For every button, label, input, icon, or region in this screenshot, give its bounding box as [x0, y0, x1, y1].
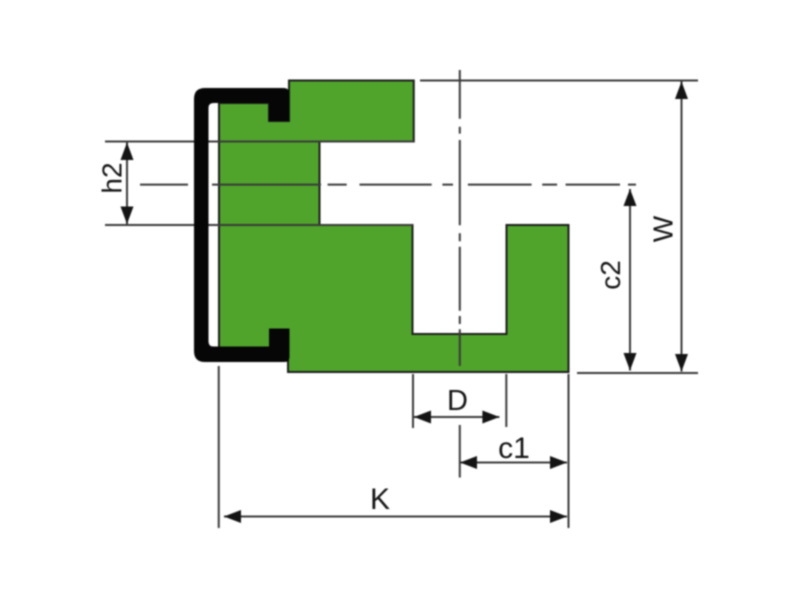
W arrow up: [675, 82, 688, 100]
dimension c1: left extension line (slot center): [459, 425, 461, 478]
contour line recess top (also h2 upper extension line): [105, 141, 414, 143]
black C-channel clip: [194, 88, 290, 362]
c2 arrow down: [624, 353, 637, 371]
W dimension line: [681, 82, 683, 372]
svg-text:D: D: [447, 385, 468, 417]
dimension W: top extension line: [420, 80, 698, 82]
W arrow down: [675, 354, 688, 372]
h2 arrow down: [121, 207, 134, 225]
dimension h2: dimension line: [126, 143, 128, 225]
c1 arrow right: [550, 456, 567, 469]
c1/K shared right extension line: [568, 374, 570, 528]
svg-text:c1: c1: [498, 432, 530, 465]
K dimension line: [224, 516, 567, 518]
W bottom extension line: [577, 372, 698, 374]
dimension K: left extension line: [218, 366, 220, 528]
contour line recess bottom (also h2 lower extension line): [105, 224, 413, 226]
vertical center line: [459, 70, 461, 366]
dimension D: left extension line: [412, 374, 414, 428]
svg-text:c2: c2: [595, 260, 626, 290]
c1 dimension line: [460, 462, 567, 464]
D arrow right: [482, 411, 499, 424]
D right extension line: [505, 374, 507, 427]
c2 arrow up: [624, 189, 637, 206]
K arrow right: [550, 510, 567, 523]
svg-text:K: K: [370, 483, 390, 516]
K arrow left: [224, 510, 241, 523]
D arrow left: [414, 411, 431, 424]
svg-text:h2: h2: [97, 162, 128, 193]
svg-text:W: W: [648, 215, 679, 242]
horizontal center line: [140, 184, 636, 186]
green chain-guide profile cross-section: [219, 81, 569, 373]
dimension c2: dimension line: [629, 189, 631, 371]
h2 arrow up: [121, 143, 134, 161]
D dimension line: [414, 416, 499, 418]
c1 arrow left: [460, 456, 477, 469]
